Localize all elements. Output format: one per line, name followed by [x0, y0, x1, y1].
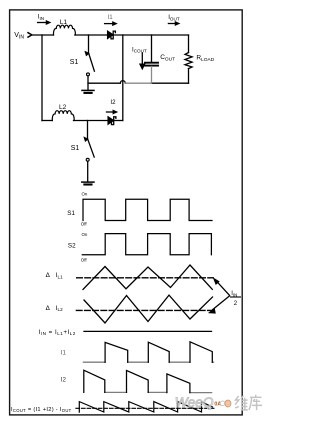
waveform I1 pulses: [105, 342, 212, 362]
arrow I2: [107, 111, 114, 113]
svg-text:S1: S1: [70, 59, 79, 66]
watermark peach o: [220, 401, 225, 406]
ground lower: [82, 181, 94, 183]
waveform I2 pulses: [84, 370, 190, 392]
waveform delta IL2 triangle: [84, 295, 213, 323]
dashed mean line of delta IL1: [77, 277, 214, 279]
pointer arrow to IL1 mean: [217, 281, 230, 295]
switch S1 contact arrowhead: [85, 52, 88, 55]
wire L1 to diode D1: [75, 34, 108, 36]
watermark WeeQoo: [175, 395, 231, 410]
diode D2 (schottky): [108, 117, 113, 124]
watermark CJK ku: [249, 395, 262, 410]
waveform S1: [83, 199, 212, 220]
svg-text:S1: S1: [71, 145, 80, 152]
wire S2 bottom to ground: [87, 161, 89, 182]
svg-text:I1: I1: [61, 349, 67, 356]
svg-text:I2: I2: [110, 99, 116, 106]
svg-text:S1: S1: [67, 210, 75, 217]
inductor L2: [52, 111, 74, 121]
svg-text:IIN: IIN: [38, 14, 44, 21]
svg-text:L2: L2: [59, 104, 67, 111]
svg-text:IIN: IIN: [231, 291, 237, 297]
arrow Iin: [38, 22, 47, 24]
switch S1 blade: [89, 54, 95, 71]
svg-text:Off: Off: [81, 258, 88, 263]
switch S2 blade: [88, 140, 94, 157]
wire connector D1-D2 cathodes: [122, 35, 124, 121]
svg-text:Off: Off: [81, 222, 88, 227]
waveform Icout sawtooth: [79, 402, 212, 413]
svg-text:IIN = IL1+IL2: IIN = IL1+IL2: [39, 329, 76, 336]
svg-text:On: On: [82, 232, 88, 237]
svg-text:On: On: [82, 192, 88, 197]
wire Vin to L1: [32, 34, 54, 36]
svg-text:L1: L1: [60, 19, 68, 26]
dashed mean line of Icout: [76, 407, 215, 409]
switch S1 upper: vertical from node B: [88, 35, 90, 53]
fraction bar Iin/2: [231, 296, 241, 298]
arrow Iout: [168, 23, 175, 25]
waveform delta IL1 triangle: [83, 265, 212, 289]
switch S1 lower contact circle: [87, 73, 90, 76]
switch S2 vertical from node D: [87, 121, 89, 140]
waveform I2 baseline: [105, 391, 212, 393]
svg-text:ΔIL2: ΔIL2: [46, 305, 64, 312]
resistor Rload: [188, 35, 190, 53]
svg-text:2: 2: [234, 301, 238, 307]
svg-text:ICOUT = (I1 +I2) - IOUT: ICOUT = (I1 +I2) - IOUT: [11, 407, 72, 413]
waveform I1 baseline: [83, 361, 213, 363]
wire D2 to connector: [114, 120, 123, 122]
watermark CJK wei: [235, 395, 262, 410]
node Vin input terminal: [28, 33, 32, 37]
switch S2 contact arrowhead: [84, 138, 87, 141]
svg-text:RLOAD: RLOAD: [196, 55, 214, 64]
arrow Icout: [141, 53, 143, 65]
svg-text:I1: I1: [108, 14, 114, 21]
ground upper: [82, 89, 94, 91]
dashed mean line of delta IL2: [76, 309, 211, 311]
svg-text:VIN: VIN: [14, 32, 24, 41]
svg-text:IOUT: IOUT: [168, 14, 180, 21]
border frame: [10, 10, 243, 415]
inductor L1: [53, 25, 75, 35]
wire lower rail L2 left: [42, 120, 52, 122]
capacitor Cout top lead: [151, 35, 153, 62]
svg-text:ICOUT: ICOUT: [132, 46, 147, 53]
switch S2 lower contact circle: [86, 158, 89, 161]
waveform S2: [82, 234, 211, 255]
wire L2 to D2: [74, 120, 109, 122]
svg-text:I2: I2: [61, 376, 67, 383]
wire bottom rail with hop over connector: [88, 81, 125, 84]
capacitor Cout plates: [145, 62, 158, 64]
wire node A down to L2 row: [41, 35, 43, 121]
svg-text:COUT: COUT: [160, 54, 175, 63]
svg-text:ΔIL1: ΔIL1: [46, 272, 64, 279]
wire D1 to Rload top rail: [113, 34, 188, 36]
wire S1 bottom to ground: [87, 76, 89, 90]
arrow I1: [105, 23, 113, 25]
svg-text:S2: S2: [68, 243, 76, 250]
pointer arrow to IL2 mean: [213, 296, 230, 310]
capacitor Cout bottom lead: [151, 67, 153, 84]
svg-text:WeeQ: WeeQ: [175, 395, 214, 410]
waveform Iin sum line: [84, 330, 212, 332]
diode D1 (schottky): [108, 31, 113, 38]
